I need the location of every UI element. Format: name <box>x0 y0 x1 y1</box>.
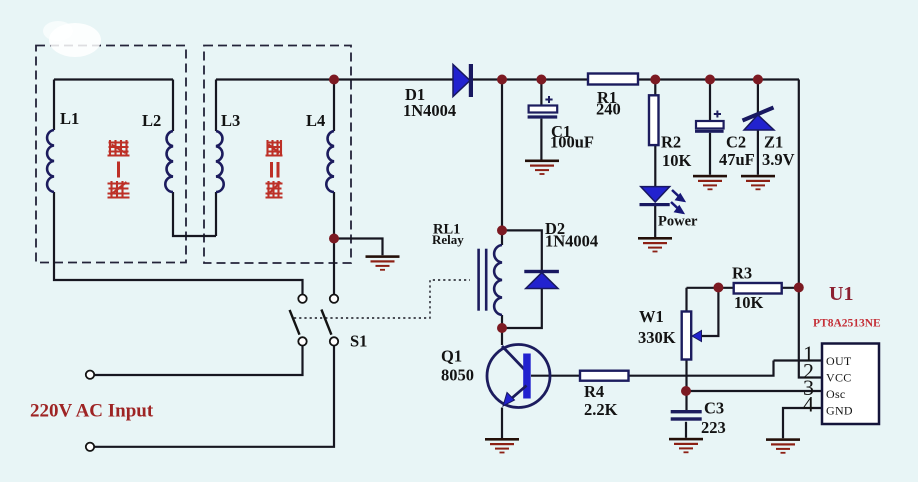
svg-text:330K: 330K <box>638 328 676 347</box>
svg-text:1N4004: 1N4004 <box>403 101 456 120</box>
svg-text:8050: 8050 <box>441 366 474 385</box>
svg-text:R4: R4 <box>584 382 604 401</box>
svg-text:R2: R2 <box>661 133 681 152</box>
svg-text:4: 4 <box>803 392 814 417</box>
svg-text:1N4004: 1N4004 <box>545 232 598 251</box>
svg-text:C3: C3 <box>704 399 724 418</box>
svg-text:VCC: VCC <box>826 371 852 385</box>
svg-text:2.2K: 2.2K <box>584 400 618 419</box>
svg-text:S1: S1 <box>350 332 367 351</box>
svg-text:L4: L4 <box>306 111 325 130</box>
svg-text:OUT: OUT <box>826 354 852 368</box>
svg-text:3.9V: 3.9V <box>762 150 795 169</box>
svg-text:L1: L1 <box>60 109 79 128</box>
svg-text:PT8A2513NE: PT8A2513NE <box>813 318 881 330</box>
svg-text:240: 240 <box>596 100 621 119</box>
svg-text:223: 223 <box>701 418 726 437</box>
svg-text:Z1: Z1 <box>764 133 783 152</box>
svg-text:Relay: Relay <box>432 232 464 247</box>
svg-text:L3: L3 <box>221 111 240 130</box>
svg-text:W1: W1 <box>639 307 664 326</box>
svg-text:47uF: 47uF <box>719 150 755 169</box>
svg-text:GND: GND <box>826 404 853 418</box>
svg-text:L2: L2 <box>142 111 161 130</box>
svg-text:Q1: Q1 <box>441 347 462 366</box>
svg-text:C2: C2 <box>726 133 746 152</box>
svg-text:Power: Power <box>658 214 698 230</box>
svg-text:220V AC Input: 220V AC Input <box>30 401 154 422</box>
svg-text:10K: 10K <box>734 293 764 312</box>
svg-text:U1: U1 <box>829 283 853 305</box>
svg-text:Osc: Osc <box>826 387 846 401</box>
svg-text:100uF: 100uF <box>550 133 594 152</box>
svg-text:10K: 10K <box>662 151 692 170</box>
svg-text:R3: R3 <box>732 264 752 283</box>
